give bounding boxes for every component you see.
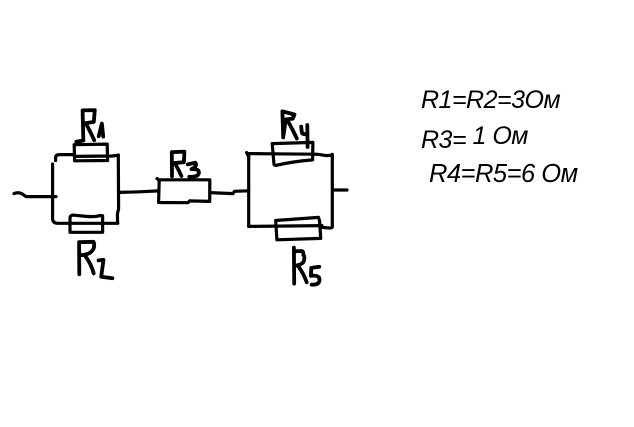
wire left vertical of right parallel loop (247, 156, 250, 226)
label R2 (79, 242, 112, 278)
resistor R3 (157, 179, 210, 203)
resistor R2 (70, 215, 103, 232)
wire left vertical + bottom of left parallel loop (53, 164, 118, 223)
value text R4=R5=6 Om (429, 160, 578, 189)
value text R3= 1 Om (421, 126, 528, 155)
wire top of right parallel loop (247, 153, 332, 157)
resistor R4 (272, 142, 313, 165)
wire top of left parallel loop (56, 155, 119, 161)
wire right vertical of left parallel loop (117, 155, 118, 223)
label R3 (172, 152, 199, 177)
resistor R1 (74, 144, 107, 161)
wire R3 to right loop (210, 191, 249, 194)
wire bottom of right parallel loop (249, 224, 322, 228)
value text R1=R2=3Om (421, 86, 560, 115)
wire left loop to R3 (120, 191, 158, 193)
wire left lead (14, 193, 56, 197)
label R1 (76, 110, 103, 142)
wire right vertical of right parallel loop (322, 154, 332, 228)
label R4 (282, 111, 307, 147)
resistor R5 (276, 217, 321, 239)
wire right lead (334, 188, 347, 191)
label R5 (294, 248, 320, 285)
